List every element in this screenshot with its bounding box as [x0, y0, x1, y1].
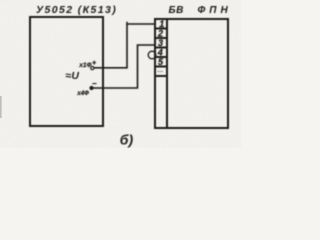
connector cell divider below dots	[155, 75, 167, 77]
scan noise	[0, 0, 1, 1]
wire x1Ф to pin 1	[94, 24, 154, 68]
terminal x1Ф circle	[91, 67, 94, 70]
socket circle at pin 4	[148, 51, 156, 59]
device box У5052	[30, 17, 103, 126]
connector cell divider 2/3	[155, 37, 167, 39]
connector strip divider	[166, 19, 168, 128]
terminal x4Ф circle	[90, 86, 93, 89]
connector cell divider 5/dots	[155, 66, 167, 68]
block box БВ ФПН	[155, 19, 228, 128]
wire corner tick	[126, 22, 128, 25]
connector cell divider 4/5	[155, 56, 167, 58]
connector cell divider 1/2	[155, 28, 167, 30]
wire x4Ф to pin 3	[93, 45, 154, 88]
connector cell divider 3/4	[155, 47, 167, 49]
